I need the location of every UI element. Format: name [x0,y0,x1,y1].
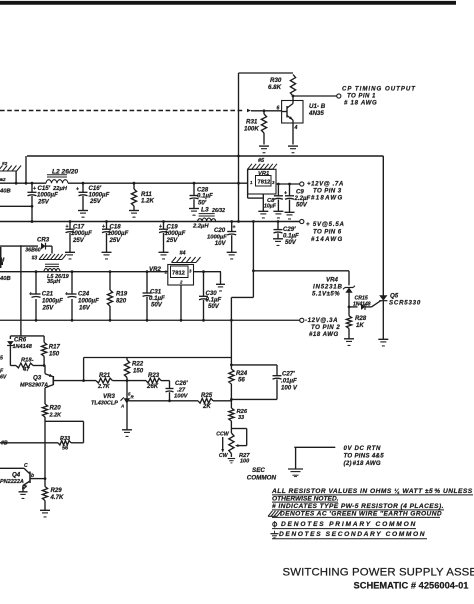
svg-text:25V: 25V [42,305,55,312]
diode CR15 [349,296,381,310]
svg-text:100: 100 [240,459,249,465]
svg-text:R30: R30 [270,77,282,84]
svg-text:SWITCHING POWER SUPPLY ASSEMBL: SWITCHING POWER SUPPLY ASSEMBLY [283,567,474,579]
svg-text:#18AWG: #18AWG [311,195,344,202]
svg-text:26/32: 26/32 [211,208,225,214]
svg-text:PN2222A: PN2222A [0,479,24,485]
svg-text:6.8K: 6.8K [268,84,282,91]
inductor L2 [46,169,78,184]
svg-text:VR3: VR3 [103,393,115,400]
ground under Q4 [19,492,28,499]
svg-text:40B: 40B [0,189,11,195]
svg-text:C: C [24,463,28,469]
svg-text:26K: 26K [146,383,159,390]
svg-text:56: 56 [62,446,69,452]
diode CR6 [7,336,33,366]
capacitor C28 [190,183,213,208]
svg-text:25V: 25V [72,237,85,244]
capacitor C31 [143,272,165,321]
wire CR6 feed [20,245,22,336]
capacitor C21 [29,272,63,321]
svg-text:6V: 6V [0,375,7,381]
inductor L3 [192,207,225,230]
wire R31 to ground [263,133,265,145]
ground under U1-B [288,146,298,153]
svg-text:.01µF: .01µF [281,378,297,385]
svg-text:R21: R21 [99,372,111,379]
svg-text:50′: 50′ [198,199,207,206]
ground under R27 [228,459,235,463]
svg-text:VR2: VR2 [149,266,161,273]
svg-text:IN5231B: IN5231B [313,284,343,291]
svg-text:25V: 25V [166,237,179,244]
svg-text:COMMON: COMMON [247,475,277,482]
capacitor C30 [199,272,221,321]
wire bus B drop [231,222,254,321]
svg-text:SCHEMATIC # 4256004-01: SCHEMATIC # 4256004-01 [354,581,469,591]
svg-text:47: 47 [22,367,30,373]
ground under VR3 [122,430,132,437]
label +12V output [307,181,344,202]
svg-text:#B: #B [1,441,8,447]
svg-text:VR1: VR1 [258,171,269,177]
label SEC COMMON [247,467,277,482]
node CP terminal [337,94,341,98]
capacitor C27 [230,365,298,401]
wire to VR4 branch [253,270,349,272]
svg-text:40B: 40B [0,276,11,282]
svg-text:+: + [159,224,162,230]
svg-text:1000µF: 1000µF [165,230,186,237]
svg-text:-12V@.3A: -12V@.3A [305,317,338,324]
inductor L5 [44,264,70,285]
svg-text:56: 56 [238,377,245,384]
svg-text:25V: 25V [89,198,102,205]
label -12V output [305,317,340,338]
svg-text:VR4: VR4 [326,277,338,284]
svg-text:R22: R22 [132,361,144,368]
wire VR2 output [194,270,222,273]
svg-text:100V: 100V [174,394,189,400]
resistor R17 [42,336,61,366]
svg-text:#5: #5 [258,158,265,164]
svg-text:1000µF: 1000µF [42,298,63,305]
resistor R28 [346,315,366,339]
svg-text:CCW: CCW [216,432,229,438]
svg-text:2: 2 [179,280,183,285]
svg-text:50V: 50V [208,303,220,310]
capacitor C20 [207,220,236,252]
resistor R21 [96,372,128,390]
svg-text:#4: #4 [180,251,186,257]
svg-text:50V: 50V [285,239,297,246]
ground under R11 [129,211,139,218]
svg-text:+: + [33,186,36,192]
ground under C28 [189,209,199,216]
resistor R22 [124,358,143,381]
svg-text:+: + [284,191,287,197]
svg-text:R18-: R18- [21,358,34,364]
svg-text:R25: R25 [201,392,213,399]
svg-text:C27′: C27′ [282,371,295,378]
resistor R11 [131,183,154,210]
svg-text:1N4148: 1N4148 [13,344,33,350]
svg-text:150: 150 [133,368,144,375]
ground under C29 [273,239,283,246]
svg-text:TL430CLP: TL430CLP [91,401,118,407]
wire 0V rtn [294,447,335,469]
svg-text:■2: ■2 [0,177,6,183]
wire VR1 input drop [238,156,240,222]
svg-text:150: 150 [49,351,60,358]
resistor R20 [42,404,62,419]
transistor Q4 [0,472,45,492]
svg-text:TO PIN 2: TO PIN 2 [311,324,340,331]
ground under C8 [273,211,283,218]
svg-text:C20: C20 [214,227,226,234]
svg-text:4.7K: 4.7K [50,494,64,501]
wire stub left [0,205,32,207]
svg-text:1000µF: 1000µF [71,230,92,237]
wire CP output [292,95,337,98]
svg-text:2K: 2K [202,403,211,410]
capacitor C8 [264,184,283,211]
op-amp VR2 7812 regulator [149,265,194,286]
svg-text:# INDICATES TYPE PW-5 RESIST: # INDICATES TYPE PW-5 RESISTOR (4 PLACES… [272,503,444,510]
wire VR1 output [276,183,300,186]
capacitor C19 [159,222,186,253]
wire dashed CP drive line with arrow [0,109,251,113]
svg-text:1000µF: 1000µF [108,230,129,237]
ground under R29 [40,510,50,517]
ground under C9 [285,212,295,219]
svg-text:#3: #3 [32,256,38,262]
resistor R19 [107,272,127,321]
label M [0,247,5,268]
wire VR3 cathode line [129,399,199,402]
node +12V terminal [300,182,304,186]
svg-text:+: + [76,187,79,193]
svg-text:+12V@ .7A: +12V@ .7A [307,181,344,188]
label schematic number [354,581,469,591]
ground under 0V rtn [288,469,303,477]
wire Q4 collector [0,463,30,474]
svg-text:SEC: SEC [252,467,265,474]
wire VR2 gnd stub [220,272,222,284]
ground under Q5 [378,339,388,346]
ground under VR1 [258,211,268,218]
wire emitter to ground [292,123,294,145]
svg-text:OTHERWISE NOTED.: OTHERWISE NOTED. [272,495,339,502]
resistor R18 [10,358,45,374]
svg-text:C21: C21 [42,291,54,298]
svg-text:1000µF: 1000µF [78,298,99,305]
svg-text:ALL RESISTOR VALUES IN OHMS: ALL RESISTOR VALUES IN OHMS ¼ WATT ±5 % … [271,488,473,495]
svg-text:R33: R33 [60,436,70,442]
wire VR1 ground loop [248,169,264,211]
svg-text:36B60: 36B60 [25,248,40,254]
label 40B [0,276,11,282]
transistor VR3 TL430CLP [91,381,135,430]
wire R20 down [44,417,47,480]
label 0V DC RTN [344,445,385,467]
svg-text:SCR5330: SCR5330 [389,300,421,307]
svg-text:Q3: Q3 [33,375,42,382]
svg-text:2.2K: 2.2K [49,413,63,419]
op-amp U1-B 4N35 optocoupler [282,96,326,123]
wire base [251,110,282,112]
svg-text:b: b [31,473,34,479]
label #2 net [2,161,8,167]
svg-text:10V: 10V [215,240,227,247]
svg-text:50V: 50V [151,302,163,309]
ground under C20 [227,252,237,259]
svg-text:+: + [233,225,236,231]
svg-text:R29: R29 [51,487,63,494]
svg-text:10µF: 10µF [264,204,277,210]
wire -12V rail drop [230,320,233,369]
ground under C18 [102,252,112,259]
svg-text:C24: C24 [78,291,90,298]
resistor R23 [127,372,170,390]
op-amp VR1 7812 regulator [248,169,276,194]
wire bus C [0,270,168,273]
ground under R31 [259,146,269,153]
svg-text:L3: L3 [201,207,209,214]
svg-text:7812: 7812 [172,271,185,277]
svg-text:TO PINS 4&5: TO PINS 4&5 [344,453,385,460]
node -12V terminal [300,318,304,322]
label CP TIMING OUTPUT [342,86,416,107]
transistor Q3 [20,366,53,405]
svg-text:Q4: Q4 [12,472,21,479]
svg-text:TO PIN 6: TO PIN 6 [313,229,342,236]
svg-text:5.1V±5%: 5.1V±5% [312,291,340,298]
svg-text:# 18 AWG: # 18 AWG [344,100,377,107]
wire R33 branch [45,421,84,443]
ground earth #3 [32,254,67,262]
resistor R33 [0,436,84,452]
svg-text:2.7K: 2.7K [97,384,111,390]
resistor R29 [42,479,64,510]
svg-text:#18 AWG: #18 AWG [309,331,339,338]
svg-text:DENOTES PRIMARY COMMON: DENOTES PRIMARY COMMON [281,521,417,528]
svg-text:1000µF: 1000µF [37,192,58,199]
svg-text:R20: R20 [50,405,62,412]
svg-text:Q5: Q5 [390,293,399,300]
svg-text:4N35: 4N35 [308,110,324,117]
svg-text:16V: 16V [79,305,91,312]
svg-text:50V: 50V [296,202,308,209]
svg-text:1N4148: 1N4148 [353,302,371,308]
label 22uH [52,186,68,192]
wire sense vertical [83,358,85,381]
svg-text:+ 5V@5.5A: + 5V@5.5A [306,221,345,228]
svg-text:TO PIN 1: TO PIN 1 [347,93,376,100]
resistor R25 [198,392,231,410]
svg-text:33: 33 [238,415,244,421]
svg-text:25V: 25V [109,237,122,244]
transistor Q5 SCR [379,293,421,340]
svg-text:5: 5 [0,356,3,362]
svg-text:100 V: 100 V [281,385,298,392]
svg-text:820: 820 [116,298,127,305]
resistor R27 potentiometer [216,429,250,465]
label title [283,567,474,579]
wire R24 to junction [230,384,232,408]
resistor R30 [268,75,296,97]
label pin 4 [294,125,298,131]
svg-text:R31: R31 [246,119,258,126]
label 5 [0,356,3,362]
notes block [268,488,473,539]
wire bus A right drop to Q5 [382,156,384,296]
svg-text:TO PIN 3: TO PIN 3 [313,188,342,195]
svg-text:CP TIMING OUTPUT: CP TIMING OUTPUT [342,86,416,93]
capacitor C17 [66,222,93,253]
svg-text:DENOTES AC ′GREEN WIRE ″EART: DENOTES AC ′GREEN WIRE ″EARTH GROUND [280,510,442,517]
ground earth #2 [0,166,21,184]
capacitor C15 [28,183,59,223]
svg-text:R28: R28 [355,315,367,322]
wire bus B [0,220,300,223]
svg-text:1K: 1K [356,322,364,329]
top border line [0,1,456,5]
capacitor C29 [274,220,299,246]
svg-text:7812: 7812 [258,180,271,186]
label 40B [0,189,11,195]
capacitor C26 [166,380,189,401]
svg-text:C26′: C26′ [175,380,188,387]
wire R30 feed from bus [239,73,294,156]
ground earth #4 [172,251,201,263]
svg-text:2.2µH: 2.2µH [192,224,209,230]
label pin 6 [277,106,280,112]
wire CR6 box top [10,335,44,337]
svg-text:A: A [120,404,124,409]
wire R26 to pot [230,421,232,433]
capacitor C24 [65,272,99,321]
wire Q3 base [53,379,96,382]
wire input rail [0,156,248,185]
svg-text:CR3: CR3 [37,237,50,244]
label F [0,369,7,381]
wire VR4 drop [348,271,350,286]
ground under R28 [344,339,354,346]
diode CR3 [0,237,52,254]
label 2 [0,177,6,183]
svg-text:R23: R23 [148,372,160,379]
capacitor C16 [76,183,110,210]
capacitor C9 [284,184,310,212]
label +5V output [306,221,345,243]
svg-text:(2) #18 AWG: (2) #18 AWG [344,460,381,467]
ground under C17 [65,252,75,259]
svg-text:CR6: CR6 [14,337,27,344]
ground earth #5 [248,158,278,169]
svg-text:DENOTES SECONDARY COMMON: DENOTES SECONDARY COMMON [279,531,426,538]
resistor R31 [244,109,267,133]
resistor R24 [229,369,248,384]
resistor R26 [229,408,248,421]
wire bus A [27,155,383,158]
svg-text:R17: R17 [49,344,61,351]
diode VR4 zener [312,277,355,298]
svg-text:U1- B: U1- B [309,103,326,110]
wire sense line [84,357,232,359]
ground right of VR2 [216,284,225,291]
node +5V terminal [300,219,304,223]
wire VR2 pin2 [180,285,182,320]
svg-text:R19: R19 [116,291,128,298]
wire zener to R28 [348,292,351,316]
svg-text:100K: 100K [244,126,259,133]
svg-text:+: + [102,224,105,230]
svg-text:#14AWG: #14AWG [311,236,344,243]
svg-text:0V DC RTN: 0V DC RTN [344,445,381,452]
svg-text:4: 4 [294,125,298,131]
svg-text:25V: 25V [37,199,50,206]
svg-text:1.2K: 1.2K [141,198,154,205]
svg-text:MPS2907A: MPS2907A [20,383,48,389]
ground under C19 [159,252,169,259]
ground under C16 [78,211,88,218]
svg-text:35µH: 35µH [47,279,61,285]
label B [1,441,8,447]
wire bus D [0,319,300,322]
svg-text:+: + [66,224,69,230]
svg-text:L2 26/20: L2 26/20 [52,169,78,176]
svg-text:CW: CW [219,453,229,459]
capacitor C18 [102,222,129,253]
